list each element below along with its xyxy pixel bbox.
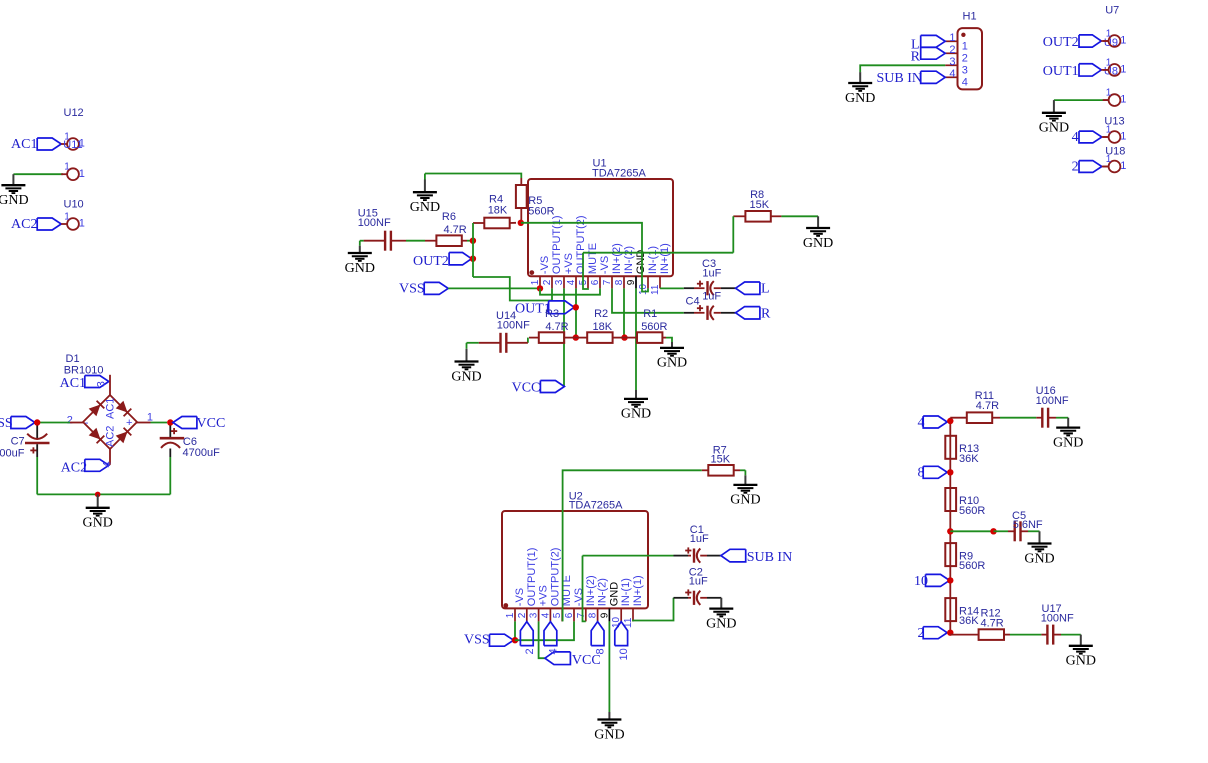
svg-text:AC1: AC1 <box>60 376 86 391</box>
svg-text:1uF: 1uF <box>689 575 708 587</box>
wire bridge to VCC <box>151 422 168 424</box>
connector circle (gnd, right) <box>1103 99 1109 101</box>
wire R1 right to ground <box>662 337 666 339</box>
diode bridge D1 diamond <box>83 395 137 449</box>
plus sign C2 <box>685 592 691 594</box>
svg-text:GND: GND <box>83 516 113 531</box>
U1 pin 2 stub <box>551 276 553 288</box>
resistor R9 <box>945 543 956 566</box>
svg-text:TDA7265A: TDA7265A <box>592 168 646 180</box>
junction dot port2 <box>947 630 953 636</box>
wire pin9 to ground (U2) <box>608 621 610 712</box>
svg-text:100NF: 100NF <box>1036 395 1069 407</box>
svg-text:100NF: 100NF <box>497 320 530 332</box>
junction dot R4/R5 <box>518 220 524 226</box>
wire MUTE to R8 <box>583 252 733 254</box>
junction dot bottom rail <box>95 492 101 498</box>
svg-text:GND: GND <box>410 200 440 215</box>
svg-text:1: 1 <box>1120 160 1126 172</box>
U2 pin 5 stub <box>561 608 563 621</box>
wire OUT2 node vertical <box>472 223 474 277</box>
svg-text:GND: GND <box>345 261 375 276</box>
svg-text:4: 4 <box>540 612 551 618</box>
svg-text:100NF: 100NF <box>358 217 391 229</box>
wire R12 to U17 <box>1010 634 1041 636</box>
connector U9 circle <box>1103 40 1109 42</box>
resistor R11 <box>967 412 992 423</box>
ground (U14) <box>466 343 468 349</box>
wire R6 to junction <box>467 240 470 242</box>
svg-text:VSS: VSS <box>464 633 490 648</box>
junction dot VSS/C7 <box>34 419 40 425</box>
connector U12 pin circle <box>61 143 67 145</box>
svg-text:L: L <box>761 282 770 297</box>
wire R6 right lead <box>462 240 467 242</box>
wire pin8 vertical <box>623 288 625 337</box>
svg-text:1: 1 <box>64 162 70 173</box>
port 2 (under pin2) <box>520 622 533 646</box>
svg-text:SUB IN: SUB IN <box>877 71 923 86</box>
svg-text:GND: GND <box>1039 121 1069 136</box>
svg-text:560R: 560R <box>641 321 667 333</box>
svg-text:3: 3 <box>529 612 540 618</box>
U2 pin 9 stub <box>608 608 610 621</box>
wire gnd to connector <box>1054 99 1103 101</box>
wire C4 to R <box>714 312 721 314</box>
svg-text:R: R <box>911 50 921 65</box>
wire bridge bottom rail <box>37 493 170 495</box>
svg-text:R2: R2 <box>594 308 608 320</box>
svg-text:100NF: 100NF <box>1041 612 1074 624</box>
wire resistor chain vertical <box>949 418 951 635</box>
U1 pin 5 stub <box>587 276 589 288</box>
diode D1-c (bottom-left) <box>89 428 101 440</box>
svg-text:+: + <box>126 417 132 429</box>
wire port4 lead <box>1102 136 1109 138</box>
svg-text:1uF: 1uF <box>702 291 721 303</box>
U2 pin 3 stub <box>538 608 540 621</box>
U1 pin 11 stub <box>659 276 661 288</box>
svg-text:10: 10 <box>618 648 630 660</box>
U2 pin1 indicator dot <box>503 603 508 608</box>
U1 pin 1 stub <box>539 276 541 288</box>
svg-text:5.6NF: 5.6NF <box>1013 519 1043 531</box>
wire U15 to R6 <box>406 240 425 242</box>
svg-text:OUTPUT(2): OUTPUT(2) <box>549 548 561 607</box>
svg-text:4.7R: 4.7R <box>545 321 568 333</box>
wire pin7 to C4 <box>612 288 684 312</box>
svg-text:8: 8 <box>614 279 625 285</box>
svg-text:1: 1 <box>505 612 516 618</box>
svg-text:1: 1 <box>1120 94 1126 106</box>
wire R4 left lead <box>473 222 484 224</box>
svg-text:6: 6 <box>564 612 575 618</box>
junction dot C5 tap <box>947 528 953 534</box>
svg-text:MUTE: MUTE <box>587 243 599 274</box>
wire R7 to U2 MUTE <box>563 470 702 621</box>
U1 pin 6 stub <box>599 276 601 288</box>
svg-text:2: 2 <box>542 279 553 285</box>
svg-text:1: 1 <box>962 41 968 53</box>
svg-text:GND: GND <box>845 91 875 106</box>
svg-text:2: 2 <box>517 612 528 618</box>
wire R5 junction to pin10 <box>521 223 648 292</box>
wire OUT1 lead <box>1101 69 1108 71</box>
resistor R10 <box>945 488 956 511</box>
capacitor U14 <box>499 333 501 353</box>
resistor R6 <box>436 235 461 246</box>
svg-text:36K: 36K <box>959 615 979 627</box>
wire U17 to ground <box>1053 634 1061 636</box>
svg-text:4.7R: 4.7R <box>444 224 467 236</box>
svg-text:GND: GND <box>657 356 687 371</box>
svg-text:18K: 18K <box>488 205 508 217</box>
wire R4 right lead <box>510 222 516 224</box>
wire U14 left lead <box>479 342 501 344</box>
resistor R4 <box>484 218 509 229</box>
svg-text:IN+(1): IN+(1) <box>659 243 671 274</box>
svg-text:4: 4 <box>1072 130 1079 145</box>
svg-text:4: 4 <box>566 279 577 285</box>
U1 pin 9 stub <box>635 276 637 288</box>
junction dot R6/OUT2 <box>470 238 476 244</box>
svg-text:1: 1 <box>1106 57 1112 68</box>
svg-text:OUT1: OUT1 <box>1043 64 1079 79</box>
wire pin11 to C3 <box>660 287 684 289</box>
capacitor C7 <box>36 426 38 439</box>
ground (top-left) <box>12 174 14 185</box>
svg-text:1uF: 1uF <box>690 533 709 545</box>
capacitor C2 <box>674 597 689 599</box>
wire R7 right lead <box>734 469 740 471</box>
svg-text:VCC: VCC <box>197 416 226 431</box>
port 4 (under pin4) <box>544 622 557 646</box>
capacitor C4 <box>684 312 694 314</box>
ground (C5) <box>1039 531 1041 543</box>
plus sign C4 <box>697 307 703 309</box>
svg-text:SUB IN: SUB IN <box>747 550 793 565</box>
svg-text:1: 1 <box>1120 64 1126 76</box>
wire bridge bottom lead <box>109 449 111 465</box>
wire R11 right lead <box>992 417 1000 419</box>
junction dot port10 <box>947 577 953 583</box>
junction dot VSS U2 <box>512 637 518 643</box>
wire bridge left lead <box>70 422 83 424</box>
svg-text:IN-(2): IN-(2) <box>597 578 609 606</box>
wire MUTE hook (pin5) <box>583 253 588 289</box>
svg-text:-: - <box>85 417 89 429</box>
svg-text:U10: U10 <box>64 199 84 211</box>
svg-text:9: 9 <box>599 612 610 618</box>
resistor R3 <box>539 332 564 343</box>
wire R11 to U16 <box>1000 417 1036 419</box>
ground (U2 pin9) <box>608 712 610 720</box>
svg-text:+VS: +VS <box>563 253 575 274</box>
wire U14 to ground <box>467 342 479 344</box>
U1 pin 4 stub <box>575 276 577 288</box>
svg-text:3: 3 <box>554 279 565 285</box>
wire pin9 to ground <box>635 288 637 390</box>
port VCC (U2) <box>545 652 571 665</box>
wire R3-R2 <box>564 337 576 339</box>
svg-text:GND: GND <box>451 369 481 384</box>
wire C5 lead <box>994 530 1009 532</box>
wire R3 left lead jog <box>529 337 539 339</box>
svg-text:AC2: AC2 <box>105 426 117 447</box>
svg-text:IN-(1): IN-(1) <box>620 578 632 606</box>
svg-text:1: 1 <box>1120 131 1126 143</box>
connector U13 circle <box>1103 136 1109 138</box>
port SUB IN <box>721 549 746 562</box>
ground (U7 col) <box>1053 100 1055 113</box>
svg-text:IN+(2): IN+(2) <box>611 243 623 274</box>
svg-text:IN-(1): IN-(1) <box>647 246 659 274</box>
svg-text:OUT2: OUT2 <box>413 254 449 269</box>
wire R8 to MUTE line <box>732 216 734 252</box>
wire GND to connector U11 <box>16 173 63 175</box>
svg-text:R1: R1 <box>643 308 657 320</box>
H1 pin 2 stub <box>945 52 957 54</box>
H1 pin 1 stub <box>945 40 957 42</box>
wire VSS to pin1 <box>448 287 540 289</box>
svg-text:U12: U12 <box>64 107 84 119</box>
op-amp U1 TDA7265A body <box>528 179 673 276</box>
svg-text:-VS: -VS <box>539 256 551 274</box>
wire R8 to ground <box>781 215 818 217</box>
wire pin11 to C2 <box>633 598 674 622</box>
junction dot port4 <box>947 418 953 424</box>
svg-text:2: 2 <box>962 53 968 65</box>
wire R7 to ground <box>740 469 745 471</box>
port 10 (under pin10) <box>615 622 628 646</box>
svg-text:36K: 36K <box>959 453 979 465</box>
wire R8 left lead <box>733 215 745 217</box>
port 8 (under pin8) <box>591 622 604 646</box>
resistor R14 <box>945 598 956 621</box>
wire U15 left lead <box>364 240 386 242</box>
svg-text:GND: GND <box>0 193 29 208</box>
wire R6 left lead <box>391 240 407 242</box>
svg-text:1: 1 <box>1106 124 1112 135</box>
U1 pin 8 stub <box>623 276 625 288</box>
wire R5 top to ground <box>425 174 521 179</box>
svg-text:OUT2: OUT2 <box>1043 35 1079 50</box>
svg-text:IN+(1): IN+(1) <box>632 575 644 606</box>
junction dot VCC/C6 <box>167 419 173 425</box>
diode D1-a (top-left) <box>89 405 101 417</box>
ground (C2) <box>720 598 722 609</box>
wire C2 to ground <box>700 597 707 599</box>
wire pin4 vertical <box>575 288 577 337</box>
wire C1 to pin7 (inside box) <box>583 556 586 622</box>
U2 pin 8 stub <box>597 608 599 621</box>
svg-text:+VS: +VS <box>538 585 550 606</box>
svg-text:2: 2 <box>524 648 536 654</box>
svg-text:560R: 560R <box>959 505 985 517</box>
capacitor U17 <box>1041 634 1047 636</box>
svg-text:4: 4 <box>949 68 955 80</box>
svg-text:1: 1 <box>530 279 541 285</box>
wire OUT2 lead <box>1101 40 1108 42</box>
connector U11 circle <box>61 173 67 175</box>
svg-text:4.7R: 4.7R <box>976 400 999 412</box>
wire R5 bottom lead <box>520 208 522 223</box>
svg-text:GND: GND <box>1066 654 1096 669</box>
U2 pin 2 stub <box>526 608 528 621</box>
wire pin1 down <box>514 621 516 640</box>
junction dot R3/R2 <box>573 334 579 340</box>
svg-text:IN-(2): IN-(2) <box>623 246 635 274</box>
svg-text:C7: C7 <box>11 435 25 447</box>
capacitor C3 <box>684 287 694 289</box>
U2 pin 4 stub <box>549 608 551 621</box>
ground (U15) <box>359 241 361 246</box>
wire U16 to ground <box>1048 417 1056 419</box>
resistor R8 <box>745 211 770 222</box>
svg-text:7: 7 <box>576 612 587 618</box>
U2 pin 1 stub <box>514 608 516 621</box>
junction dot pin1 <box>537 285 543 291</box>
svg-text:U11: U11 <box>63 139 82 151</box>
resistor R13 <box>945 436 956 459</box>
svg-text:8: 8 <box>588 612 599 618</box>
wire pin2 vertical <box>551 288 553 300</box>
diode D1-b (top-right) <box>116 401 128 413</box>
wire C5 to ground <box>1021 530 1029 532</box>
svg-text:GND: GND <box>803 236 833 251</box>
svg-text:OUTPUT(1): OUTPUT(1) <box>526 548 538 607</box>
junction dot R2/R1 <box>621 334 627 340</box>
op-amp U2 TDA7265A body <box>502 511 648 608</box>
svg-text:1: 1 <box>79 218 85 230</box>
plus sign C6 <box>171 430 177 432</box>
svg-text:IN+(2): IN+(2) <box>585 575 597 606</box>
connector U10 circle <box>61 223 67 225</box>
svg-text:18K: 18K <box>593 321 613 333</box>
svg-text:9: 9 <box>626 279 637 285</box>
connector U18 circle <box>1103 166 1109 168</box>
resistor R1 <box>637 332 662 343</box>
connector U8 circle <box>1103 69 1109 71</box>
wire C1 to SUB IN <box>700 555 707 557</box>
H1 pin 4 stub <box>945 76 957 78</box>
svg-text:U7: U7 <box>1105 4 1119 16</box>
svg-text:3: 3 <box>96 381 108 387</box>
H1 pin 3 stub <box>945 64 957 66</box>
svg-text:4: 4 <box>102 461 114 467</box>
svg-text:GND: GND <box>608 582 620 607</box>
svg-text:1: 1 <box>1106 28 1112 39</box>
wire VSS to bridge <box>40 422 70 424</box>
svg-text:1: 1 <box>1120 35 1126 47</box>
wire C1 row <box>583 555 674 557</box>
capacitor C6 <box>169 426 171 438</box>
svg-text:GND: GND <box>621 407 651 422</box>
svg-text:1: 1 <box>64 211 70 222</box>
capacitor C5 <box>1014 521 1016 541</box>
svg-text:2: 2 <box>67 415 73 427</box>
svg-text:VCC: VCC <box>512 381 541 396</box>
wire U15 to ground <box>360 240 364 242</box>
svg-text:4.7R: 4.7R <box>981 617 1004 629</box>
wire R12 right lead <box>1004 634 1010 636</box>
svg-text:5: 5 <box>552 612 563 618</box>
U1 pin 10 stub <box>647 276 649 288</box>
svg-text:15K: 15K <box>750 199 770 211</box>
port L <box>736 282 760 294</box>
resistor R5 <box>516 185 527 208</box>
svg-text:11: 11 <box>650 284 661 295</box>
svg-text:4: 4 <box>962 77 968 89</box>
resistor R7 <box>708 465 733 476</box>
wire port2 lead <box>1102 166 1109 168</box>
svg-text:OUTPUT(1): OUTPUT(1) <box>551 215 563 274</box>
svg-text:1: 1 <box>1106 88 1112 99</box>
resistor R12 <box>979 629 1004 640</box>
svg-text:3: 3 <box>962 65 968 77</box>
wire C6 down <box>169 457 171 494</box>
wire R2-R1 <box>613 337 625 339</box>
svg-text:C4: C4 <box>686 296 700 308</box>
capacitor U16 <box>1036 417 1042 419</box>
ground (R5 top) <box>424 174 426 180</box>
junction dot OUT2 <box>470 256 476 262</box>
wire C7 down <box>36 457 38 494</box>
ground (U17) <box>1080 635 1082 646</box>
wire pin3 to VCC <box>539 621 545 658</box>
svg-text:D1: D1 <box>66 353 80 365</box>
svg-text:1: 1 <box>79 168 85 180</box>
svg-text:VSS: VSS <box>399 282 425 297</box>
wire pin1 to pin6 (U2 -VS bus) <box>515 621 574 640</box>
svg-text:7: 7 <box>602 279 613 285</box>
ground (R7) <box>744 470 746 475</box>
wire R12 left lead <box>950 634 978 636</box>
svg-text:AC1: AC1 <box>105 398 117 419</box>
svg-text:4700uF: 4700uF <box>0 447 25 459</box>
ground (R8) <box>817 216 819 228</box>
wire bridge right lead <box>137 422 151 424</box>
svg-text:H1: H1 <box>963 11 977 23</box>
svg-text:-VS: -VS <box>514 588 526 606</box>
svg-text:AC2: AC2 <box>61 460 87 475</box>
plus sign C1 <box>685 550 691 552</box>
wire bridge top lead <box>109 375 111 395</box>
capacitor C1 <box>674 555 689 557</box>
ground (U1 pin9) <box>635 390 637 399</box>
svg-text:8: 8 <box>595 648 607 654</box>
ground (U16) <box>1067 418 1069 428</box>
svg-text:R6: R6 <box>442 211 456 223</box>
resistor R2 <box>587 332 612 343</box>
U2 pin 6 stub <box>573 608 575 621</box>
svg-text:GND: GND <box>1053 435 1083 450</box>
wire pin3 to VCC <box>563 288 565 386</box>
U1 pin 7 stub <box>611 276 613 288</box>
wire C5 tap <box>950 530 993 532</box>
wire R11 left lead <box>950 417 967 419</box>
svg-text:2: 2 <box>949 44 955 56</box>
svg-text:15K: 15K <box>711 453 731 465</box>
svg-text:560R: 560R <box>528 206 554 218</box>
wire OUT2 node to OUTPUT1 <box>473 277 552 301</box>
U2 pin 10 stub <box>620 608 622 621</box>
svg-text:AC2: AC2 <box>11 217 37 232</box>
svg-text:TDA7265A: TDA7265A <box>569 499 623 511</box>
svg-text:GND: GND <box>730 493 760 508</box>
svg-text:-VS: -VS <box>599 256 611 274</box>
junction dot C5 mid <box>990 528 996 534</box>
